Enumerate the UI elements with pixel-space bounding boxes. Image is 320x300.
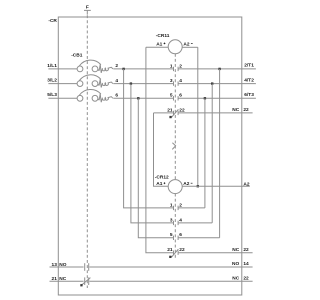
wire row1 right of contact <box>178 68 256 70</box>
wire drop phase3 to CR12 input3 <box>138 98 173 238</box>
contact CR12 21-22 NC <box>167 247 185 258</box>
junction row3 left <box>137 97 139 99</box>
latch chevron <box>172 143 175 150</box>
contact CR11 5-6 <box>170 93 182 101</box>
wire NC11 row left <box>154 112 174 114</box>
svg-text:1: 1 <box>170 202 173 208</box>
wire CR11 A1 <box>146 46 168 48</box>
svg-text:3: 3 <box>170 217 173 223</box>
svg-text:4: 4 <box>115 78 118 84</box>
svg-text:5: 5 <box>170 93 173 99</box>
wire label 6 <box>115 93 118 99</box>
wire NC11 row to CR12 A1 <box>154 113 169 186</box>
svg-text:NO: NO <box>59 262 66 268</box>
terminal label 5/L3 <box>47 92 57 98</box>
terminal label A2 right <box>243 181 249 187</box>
junction A2 bus <box>197 185 199 187</box>
svg-text:-CB1: -CB1 <box>71 53 83 59</box>
wire label 4 <box>115 78 118 84</box>
svg-text:1: 1 <box>170 63 173 69</box>
wire NC12 row right <box>178 252 253 254</box>
junction row2 left <box>130 82 132 84</box>
wire CR11 A1 drop to CR12 NC21 <box>146 47 174 252</box>
circuit breaker CB1 pole 2 <box>48 75 173 88</box>
label -CR <box>48 18 57 24</box>
dashed linkage CR12 contacts <box>174 194 176 259</box>
terminal label 3/L2 <box>47 78 57 84</box>
label -CB1 <box>71 53 83 59</box>
aux contact row 21-22 NC <box>50 277 253 286</box>
terminal label 2/T1 <box>244 63 254 69</box>
label NC 22 right bottom <box>232 275 249 281</box>
svg-text:A1: A1 <box>156 41 162 47</box>
label 21 NC left <box>52 276 67 282</box>
label -CR12 <box>155 175 169 181</box>
svg-text:F: F <box>86 4 89 10</box>
wire NC11 row right <box>178 112 253 114</box>
label NO 14 right <box>232 261 249 267</box>
circuit breaker CB1 pole 3 <box>48 90 173 103</box>
wire row2 right of contact <box>178 83 256 85</box>
svg-text:6/T3: 6/T3 <box>244 92 254 98</box>
svg-text:1/L1: 1/L1 <box>47 63 57 69</box>
svg-text:22: 22 <box>243 275 249 281</box>
wire label 2 <box>115 63 118 69</box>
junction row1 right <box>218 68 220 70</box>
svg-text:3: 3 <box>170 78 173 84</box>
svg-text:NO: NO <box>232 261 239 267</box>
contact CR11 3-4 <box>170 78 182 86</box>
wire CR11 A2 <box>182 46 198 48</box>
svg-text:-CR11: -CR11 <box>156 33 170 39</box>
wire CR11 A2 drop to A2 bus <box>197 47 199 186</box>
terminal label 4/T2 <box>244 77 254 83</box>
svg-text:4/T2: 4/T2 <box>244 77 254 83</box>
junction row2 right <box>211 82 213 84</box>
label -CR11 <box>156 33 170 39</box>
circuit breaker CB1 pole 1 <box>48 60 173 73</box>
svg-text:NC: NC <box>59 276 66 282</box>
svg-text:5/L3: 5/L3 <box>47 92 57 98</box>
wire row3 right of contact <box>178 97 256 99</box>
node F label <box>86 4 89 10</box>
terminal label 6/T3 <box>244 92 254 98</box>
svg-text:6: 6 <box>179 93 182 99</box>
wire drop phase1 to CR12 input1 <box>124 69 174 208</box>
svg-text:A2: A2 <box>183 41 189 47</box>
svg-text:NC: NC <box>232 107 239 113</box>
aux contact row 13-14 NO <box>50 263 253 271</box>
svg-text:2/T1: 2/T1 <box>244 63 254 69</box>
wire CR12 out1 <box>178 207 205 209</box>
wire CR12 out3 <box>178 237 220 239</box>
svg-text:3/L2: 3/L2 <box>47 78 57 84</box>
svg-text:-CR12: -CR12 <box>155 175 169 181</box>
wire drop phase2 to CR12 input2 <box>131 84 174 223</box>
dashed linkage CR11 to CR12 <box>174 54 176 180</box>
svg-text:NC: NC <box>232 275 239 281</box>
contact CR12 5-6 <box>170 232 182 240</box>
wire riser CR12 out2 to row2 <box>211 84 213 223</box>
enclosure box -CR <box>58 17 242 295</box>
wire riser CR12 out3 to row1 <box>219 69 221 238</box>
coil CR12 <box>156 180 192 194</box>
label 13 NO left <box>52 262 67 268</box>
svg-text:A2: A2 <box>243 181 249 187</box>
svg-text:22: 22 <box>243 107 249 113</box>
junction row1 left <box>122 68 124 70</box>
contact CR11 21-22 NC <box>167 107 185 118</box>
svg-text:A1: A1 <box>156 181 162 187</box>
contact CR11 1-2 <box>170 63 182 71</box>
svg-text:6: 6 <box>115 93 118 99</box>
contact CR12 1-2 <box>170 202 182 210</box>
terminal label NC 22 row4 <box>232 107 249 113</box>
terminal label NC 22 CR12 <box>232 247 249 253</box>
svg-text:13: 13 <box>52 262 58 268</box>
wire CR12 out2 <box>178 222 212 224</box>
svg-text:21: 21 <box>52 276 58 282</box>
svg-text:21: 21 <box>167 247 173 253</box>
coil CR11 <box>156 40 193 54</box>
trip linkage T mark <box>84 10 91 14</box>
wire CR12 A2 to edge <box>182 185 250 187</box>
svg-text:14: 14 <box>243 261 249 267</box>
svg-text:NC: NC <box>232 247 239 253</box>
contact CR12 3-4 <box>170 217 182 225</box>
svg-text:2: 2 <box>115 63 118 69</box>
junction row3 right <box>204 97 206 99</box>
wire riser CR12 out1 to row3 <box>204 98 206 208</box>
svg-text:-CR: -CR <box>48 18 57 24</box>
svg-text:22: 22 <box>243 247 249 253</box>
dashed trip linkage line F <box>86 15 88 288</box>
terminal label 1/L1 <box>47 63 57 69</box>
svg-text:5: 5 <box>170 232 173 238</box>
